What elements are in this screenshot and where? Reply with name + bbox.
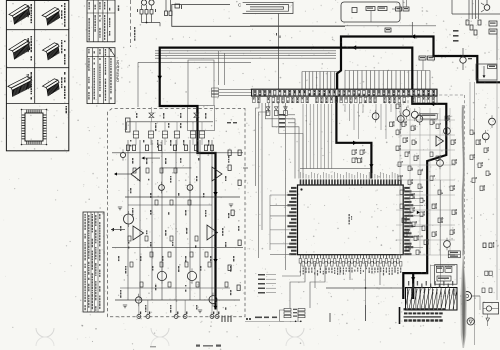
svg-text:OPERATION: OPERATION bbox=[116, 60, 120, 82]
